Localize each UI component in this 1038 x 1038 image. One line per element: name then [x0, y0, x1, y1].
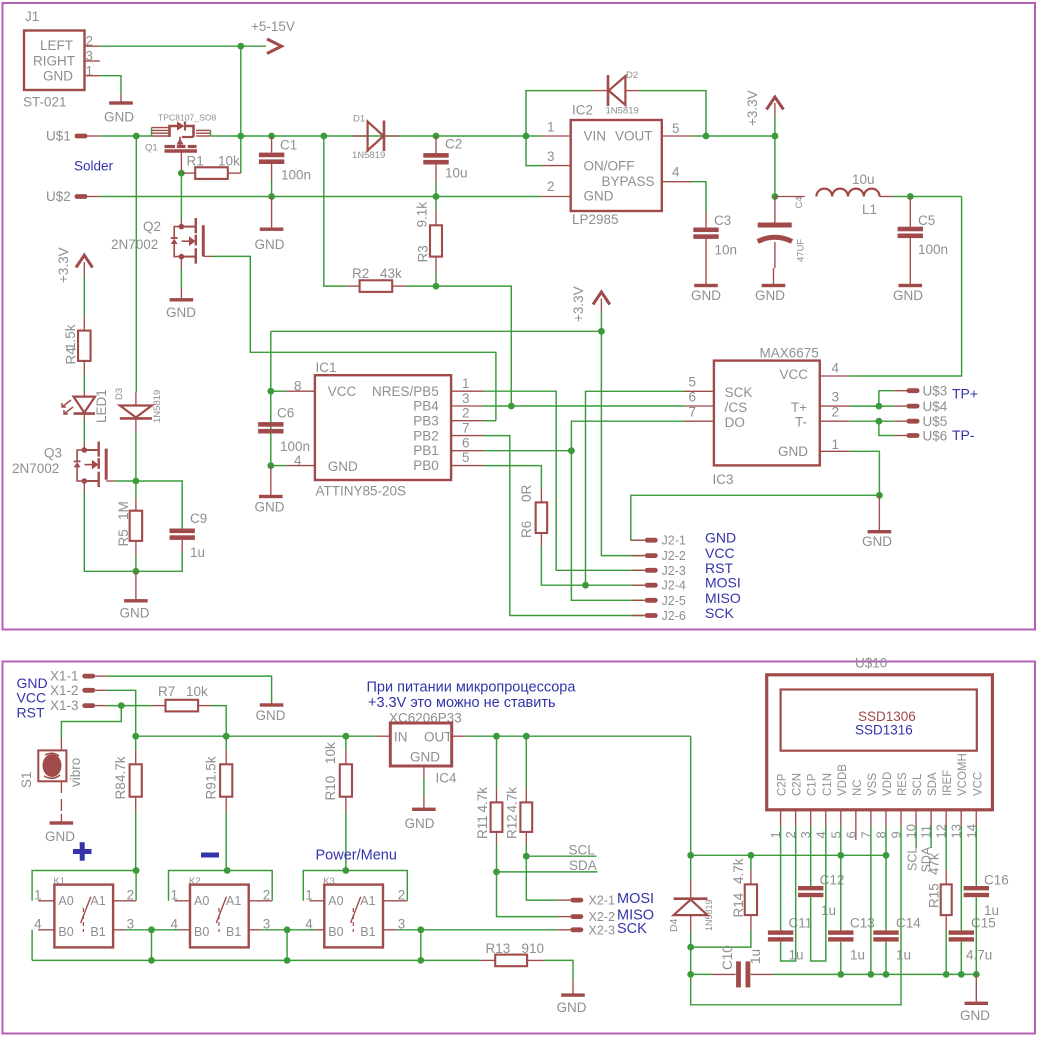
frame top sheet: [3, 3, 1036, 630]
svg-text:R10: R10: [323, 776, 338, 801]
svg-text:SCK: SCK: [725, 385, 753, 400]
svg-text:GND: GND: [862, 534, 892, 549]
svg-text:C9: C9: [190, 511, 207, 526]
switch K3: [324, 885, 383, 948]
switch K1: [54, 885, 113, 948]
svg-text:VCC: VCC: [779, 367, 808, 382]
terminal U$6: [894, 435, 907, 437]
svg-text:PB2: PB2: [413, 428, 439, 443]
svg-text:ATTINY85-20S: ATTINY85-20S: [316, 484, 407, 499]
svg-text:+3.3V: +3.3V: [745, 90, 760, 126]
svg-text:2N7002: 2N7002: [111, 237, 158, 252]
svg-text:VCOMH: VCOMH: [957, 753, 969, 796]
IC1 pin5 PB0 stub + wire to R6: [451, 465, 483, 467]
svg-text:SDA: SDA: [927, 772, 939, 796]
IC1 pin6 PB1 stub + wire junction: [451, 450, 483, 452]
left rail: main node down to D3: [135, 136, 137, 392]
wire J1 pin1 to GND: [100, 76, 121, 94]
IC4 OUT stub + 3.3V out rail: [452, 735, 466, 737]
svg-text:SCK: SCK: [617, 921, 647, 937]
ground GND (C1/U$2 rail): [271, 197, 273, 228]
svg-text:R6: R6: [519, 521, 534, 538]
svg-text:J2-2: J2-2: [662, 549, 686, 563]
J1 pin stubs: [85, 45, 100, 47]
svg-text:5: 5: [672, 121, 680, 136]
svg-text:GND: GND: [778, 444, 808, 459]
svg-text:SCK: SCK: [705, 605, 734, 621]
wire R11 to SDA/X2-2: [497, 845, 558, 917]
wire LED1 to Q3: [83, 420, 85, 443]
ground GND (Q2): [180, 288, 182, 300]
wire VDD bus y855: [691, 854, 886, 856]
svg-text:1N5819: 1N5819: [152, 390, 163, 423]
wire +3.3V down to J2-2 VCC: [601, 331, 644, 555]
ground GND (IC4): [423, 796, 425, 809]
wire OUT rail corner down to bus: [690, 736, 692, 855]
svg-text:R3: R3: [416, 245, 431, 262]
svg-text:D3: D3: [114, 388, 125, 400]
svg-text:4.7u: 4.7u: [966, 948, 992, 963]
svg-text:R9: R9: [204, 782, 219, 799]
svg-text:1: 1: [171, 888, 179, 903]
wire R6 to J2-4 MOSI: [541, 546, 644, 585]
svg-text:A0: A0: [328, 894, 343, 908]
svg-text:10k: 10k: [323, 742, 338, 764]
svg-text:GND: GND: [166, 305, 196, 320]
svg-text:D2: D2: [626, 70, 638, 81]
svg-text:GND: GND: [691, 288, 721, 303]
svg-text:X1-1: X1-1: [50, 669, 79, 684]
wire K3.3 to X2-3 SCK row: [396, 929, 557, 931]
svg-text:VDDB: VDDB: [837, 764, 849, 796]
junction R10/K3: [342, 867, 349, 874]
wire RST junction to S1 vibro: [61, 706, 121, 738]
svg-text:S1: S1: [19, 771, 34, 788]
svg-text:4: 4: [832, 361, 840, 376]
svg-text:VCC: VCC: [972, 772, 984, 796]
wire X1-2 VCC down to rail: [107, 690, 136, 736]
svg-text:C2: C2: [445, 137, 462, 152]
svg-text:C3: C3: [714, 213, 731, 228]
svg-text:GND: GND: [328, 459, 358, 474]
wire X1-1 to GND: [107, 676, 272, 702]
svg-text:VOUT: VOUT: [615, 129, 653, 144]
svg-text:U$6: U$6: [923, 428, 948, 443]
svg-text:Power/Menu: Power/Menu: [316, 848, 397, 864]
svg-text:SDA: SDA: [569, 858, 597, 873]
pad X1-2 / net VCC: [82, 688, 95, 693]
svg-text:5: 5: [689, 375, 697, 390]
pad X2-2 / net MISO: [557, 916, 570, 918]
svg-text:GND: GND: [255, 500, 285, 515]
svg-text:R1: R1: [187, 154, 204, 169]
svg-text:GND: GND: [120, 606, 150, 621]
svg-text:PB0: PB0: [413, 458, 439, 473]
svg-text:2: 2: [547, 179, 555, 194]
svg-text:J1: J1: [25, 9, 39, 24]
svg-text:MISO: MISO: [705, 590, 741, 606]
svg-text:1N5819: 1N5819: [352, 150, 385, 161]
wire to U$3: [879, 391, 894, 406]
svg-text:C14: C14: [896, 916, 921, 931]
wire R12 to SCL/X2-1: [526, 845, 557, 900]
wire D3 to node: [135, 432, 137, 481]
svg-text:K1: K1: [53, 876, 65, 887]
svg-text:X1-2: X1-2: [50, 683, 79, 698]
svg-text:X1-3: X1-3: [50, 698, 79, 713]
junction main rail R1/+5-15V: [237, 133, 244, 140]
ground GND (C3): [705, 268, 707, 286]
svg-text:47k: 47k: [927, 853, 942, 875]
Q2 source to ground: [180, 257, 182, 268]
svg-text:GND: GND: [43, 69, 73, 84]
svg-text:TP-: TP-: [952, 427, 975, 443]
svg-text:IREF: IREF: [942, 770, 954, 796]
svg-text:U$5: U$5: [923, 414, 948, 429]
svg-text:B1: B1: [226, 925, 241, 939]
svg-text:0R: 0R: [519, 484, 534, 502]
svg-text:4: 4: [672, 165, 680, 180]
svg-text:/CS: /CS: [725, 400, 748, 415]
svg-text:6: 6: [462, 435, 470, 450]
supply arrow +3.3V (top right): [767, 97, 784, 110]
ground GND (C6): [270, 466, 272, 495]
svg-text:10k: 10k: [186, 684, 208, 699]
svg-text:X2-2: X2-2: [589, 910, 615, 924]
svg-text:3: 3: [832, 390, 840, 405]
svg-text:D4: D4: [668, 918, 680, 932]
svg-text:U$4: U$4: [923, 399, 948, 414]
svg-text:MOSI: MOSI: [617, 891, 654, 907]
svg-text:RES: RES: [897, 772, 909, 796]
svg-text:K2: K2: [189, 876, 201, 887]
svg-text:B0: B0: [194, 925, 209, 939]
svg-text:DO: DO: [725, 415, 745, 430]
svg-text:SCL: SCL: [569, 843, 596, 858]
svg-text:5: 5: [462, 450, 470, 465]
svg-text:1u: 1u: [850, 948, 865, 963]
S1 bottom pin to GND: [60, 781, 62, 793]
connector J1: [24, 31, 85, 91]
U$10 pin7 VSS to GND rail: [870, 826, 872, 974]
wire K1.3-K2.4 row: [125, 929, 179, 931]
svg-text:Q1: Q1: [145, 143, 158, 154]
svg-text:4.7k: 4.7k: [113, 756, 128, 782]
node D3/Q3/R5/C9: [133, 478, 140, 485]
svg-text:J2-1: J2-1: [662, 534, 686, 548]
ground GND (R13): [572, 981, 574, 995]
svg-text:L1: L1: [862, 202, 877, 217]
Q3 gate wire to D3/R5/C9 node: [106, 480, 115, 482]
svg-text:GND: GND: [960, 1008, 990, 1023]
ground GND (J1): [120, 94, 122, 103]
Q2 gate wire to PB3 net: [203, 255, 212, 257]
IC3 pin3 T+ stub + wire: [820, 405, 850, 407]
ground GND (Q3/R5/C9): [135, 571, 137, 599]
svg-text:При питании микропроцессора: При питании микропроцессора: [367, 680, 577, 696]
junction +5-15V: [237, 43, 244, 50]
svg-text:A0: A0: [58, 894, 73, 908]
svg-text:D1: D1: [353, 114, 365, 125]
frame bottom sheet: [3, 662, 1036, 1034]
svg-text:2: 2: [462, 406, 470, 421]
IC2 pin3 stub + wire: [526, 136, 542, 166]
svg-text:C1N: C1N: [822, 773, 834, 796]
svg-text:R8: R8: [113, 782, 128, 799]
svg-text:GND: GND: [256, 708, 286, 723]
svg-text:VCC: VCC: [328, 384, 357, 399]
IC2 pin1 stub: [523, 133, 530, 140]
ground GND (IC3): [878, 495, 880, 530]
terminal U$5: [894, 420, 907, 422]
svg-text:LEFT: LEFT: [40, 38, 73, 53]
svg-text:43k: 43k: [380, 266, 402, 281]
svg-text:10u: 10u: [852, 172, 875, 187]
svg-text:4.7k: 4.7k: [731, 858, 746, 884]
svg-text:T+: T+: [791, 400, 807, 415]
svg-text:+3.3V это можно не ставить: +3.3V это можно не ставить: [368, 695, 556, 711]
svg-text:vibro: vibro: [68, 758, 83, 787]
svg-text:J2-5: J2-5: [662, 594, 686, 608]
svg-text:T-: T-: [795, 414, 807, 429]
bottom rail (switch commons): [32, 959, 480, 961]
svg-text:C10: C10: [720, 945, 735, 970]
svg-text:SCL: SCL: [912, 773, 924, 796]
svg-text:1: 1: [462, 376, 470, 391]
svg-text:IN: IN: [394, 730, 408, 745]
svg-text:TPC8107_SO8: TPC8107_SO8: [158, 113, 217, 123]
svg-text:ON/OFF: ON/OFF: [584, 159, 635, 174]
svg-text:Q3: Q3: [44, 446, 62, 461]
label SDA: [497, 871, 598, 873]
wire MOSI node up to IC3 SCK: [586, 391, 685, 585]
ground GND (S1): [60, 814, 62, 823]
wire main +VIN rail y136: [100, 135, 152, 137]
IC2 pin4 BYPASS stub: [662, 181, 692, 183]
IC3 left pin stubs: [684, 390, 714, 392]
svg-text:1.5k: 1.5k: [204, 756, 219, 782]
svg-text:VCC: VCC: [705, 545, 735, 561]
junction R9/K2: [224, 867, 231, 874]
svg-text:2N7002: 2N7002: [12, 461, 59, 476]
K2 top staple wire: [169, 871, 273, 901]
svg-text:Q2: Q2: [143, 219, 161, 234]
Q1 gate stub to R1 node: [180, 151, 182, 173]
svg-text:J2-6: J2-6: [662, 609, 686, 623]
wire PB1 to IC3 DO: [571, 421, 684, 451]
pad J2-3 / net RST: [632, 569, 645, 571]
svg-text:R4: R4: [63, 347, 78, 365]
IC3 pin1 GND stub + wire: [820, 450, 850, 452]
svg-text:OUT: OUT: [424, 730, 453, 745]
K3 top staple wire: [303, 871, 407, 901]
svg-text:A1: A1: [360, 894, 375, 908]
svg-text:RIGHT: RIGHT: [33, 53, 75, 68]
svg-text:PB1: PB1: [413, 443, 439, 458]
wire GND net to J2-1: [631, 495, 880, 540]
svg-text:1: 1: [34, 888, 42, 903]
svg-text:MOSI: MOSI: [705, 575, 741, 591]
svg-text:C16: C16: [984, 873, 1009, 888]
K1 pin stubs: [38, 900, 54, 902]
svg-text:2: 2: [127, 888, 135, 903]
svg-text:BYPASS: BYPASS: [602, 174, 655, 189]
svg-text:47UF: 47UF: [796, 239, 807, 262]
svg-text:VDD: VDD: [882, 772, 894, 796]
svg-text:10k: 10k: [218, 154, 240, 169]
svg-text:J2-4: J2-4: [662, 579, 686, 593]
U$10 pin5 VDDB to bus: [840, 826, 842, 855]
svg-text:C6: C6: [277, 406, 294, 421]
IC1 pin2 PB3 stub: [451, 420, 483, 422]
pad J2-6 / net SCK: [632, 615, 645, 617]
svg-text:C4: C4: [794, 196, 805, 208]
svg-text:C11: C11: [789, 916, 813, 931]
wire K1 pin4 to bottom rail: [31, 930, 33, 961]
svg-text:GND: GND: [893, 288, 923, 303]
supply arrow +3.3V (left): [76, 255, 93, 267]
wire K2.3-K3.4 row: [261, 929, 314, 931]
svg-text:U$1: U$1: [46, 129, 71, 144]
svg-text:3: 3: [547, 149, 555, 164]
U$10 pin8 VDD to bus: [885, 826, 887, 855]
svg-text:U$3: U$3: [923, 384, 948, 399]
svg-text:MAX6675: MAX6675: [760, 346, 819, 361]
svg-text:+3.3V: +3.3V: [571, 286, 586, 322]
svg-text:PB3: PB3: [413, 414, 439, 429]
supply arrow +5-15V: [267, 39, 282, 54]
svg-text:R2: R2: [352, 266, 369, 281]
svg-text:100n: 100n: [918, 242, 948, 257]
IC4 GND pin: [423, 766, 425, 778]
K2 pin stubs: [175, 900, 191, 902]
junction main rail C1: [268, 133, 275, 140]
junction main rail R2 branch: [320, 133, 327, 140]
wire X1-3 RST to R7: [107, 705, 152, 707]
svg-text:1.5k: 1.5k: [63, 324, 78, 350]
pad J2-2 / net VCC: [632, 555, 645, 557]
svg-text:B1: B1: [90, 925, 105, 939]
svg-text:3: 3: [462, 391, 470, 406]
svg-text:A1: A1: [90, 894, 105, 908]
svg-text:GND: GND: [557, 1000, 587, 1015]
IC1 pin1 NRES stub + wire to J2-3: [451, 390, 483, 392]
svg-text:C5: C5: [918, 213, 935, 228]
svg-text:1N5819: 1N5819: [606, 106, 639, 117]
pad X1-3 / net RST: [82, 703, 95, 708]
junction main rail x136: [133, 133, 140, 140]
svg-text:7: 7: [689, 405, 697, 420]
svg-text:GND: GND: [705, 530, 736, 546]
svg-text:IC1: IC1: [316, 360, 337, 375]
svg-text:J2-3: J2-3: [662, 564, 686, 578]
IC3 pin2 T- stub + wire: [820, 420, 850, 422]
wire 3.3V to IC3 VCC: [850, 197, 962, 377]
svg-text:+5-15V: +5-15V: [251, 19, 295, 34]
svg-text:X2-3: X2-3: [589, 923, 615, 937]
svg-text:A0: A0: [194, 894, 209, 908]
wire to U$6: [879, 421, 894, 435]
svg-text:R12: R12: [505, 814, 520, 839]
supply arrow +3.3V (middle): [593, 292, 610, 305]
GND rail right: [691, 973, 712, 975]
svg-text:K3: K3: [323, 876, 335, 887]
pad J2-1 / net GND: [632, 539, 645, 541]
svg-text:RST: RST: [17, 705, 45, 721]
svg-text:GND: GND: [410, 750, 440, 765]
wire PB1 to J2-5 MISO: [571, 451, 644, 601]
svg-text:RST: RST: [705, 560, 733, 576]
svg-text:VSS: VSS: [867, 773, 879, 796]
pad X1-1 / net GND: [82, 674, 95, 679]
svg-text:10u: 10u: [445, 166, 468, 181]
label SCL: [526, 855, 596, 857]
svg-text:GND: GND: [755, 288, 785, 303]
svg-text:1: 1: [547, 120, 555, 135]
junction R8/K1: [133, 867, 140, 874]
U$10 pin10 SCL label: [915, 826, 917, 848]
pad J2-4 / net MOSI: [632, 584, 645, 586]
svg-text:VIN: VIN: [584, 129, 607, 144]
svg-text:X2-1: X2-1: [589, 894, 615, 908]
svg-text:10n: 10n: [715, 243, 738, 258]
svg-text:1u: 1u: [821, 903, 836, 918]
IC2 pin5 VOUT stub: [662, 135, 692, 137]
label - (minus button): [201, 853, 219, 858]
svg-text:1: 1: [305, 888, 313, 903]
svg-text:R11: R11: [475, 815, 490, 839]
svg-text:4: 4: [34, 917, 42, 932]
IC1 pin3 PB4 stub + wire to IC3 /CS: [451, 405, 483, 407]
svg-text:SCL: SCL: [906, 847, 920, 871]
switch K2: [190, 885, 249, 948]
terminal U$4: [894, 405, 907, 407]
svg-text:GND: GND: [405, 816, 435, 831]
wire +5-15V vertical to R1: [240, 46, 242, 173]
svg-text:GND: GND: [104, 110, 134, 125]
svg-text:1u: 1u: [190, 545, 205, 560]
wire R2/R3 node to PB4: [436, 286, 511, 406]
+3.3V rail horizontal: [271, 330, 602, 332]
svg-text:IC3: IC3: [713, 472, 734, 487]
wire D4/C10 down to RES net: [691, 826, 901, 1005]
svg-text:SSD1316: SSD1316: [855, 723, 913, 738]
IC2 pin2 GND stub: [541, 196, 571, 198]
svg-text:IC2: IC2: [572, 103, 593, 118]
svg-text:C1P: C1P: [807, 773, 819, 796]
ground GND (display rail): [975, 974, 977, 1001]
svg-text:A1: A1: [226, 894, 241, 908]
wire J1 pin2 to +5-15V rail: [100, 45, 266, 47]
wire U$2 ground rail y196: [100, 196, 541, 198]
ground GND (C4): [773, 268, 775, 286]
svg-text:4.7k: 4.7k: [475, 787, 490, 813]
+3.3V rail to IC1/C6: [270, 331, 272, 465]
IC4 IN stub: [375, 735, 390, 737]
K1 top staple wire: [32, 871, 136, 901]
VCC rail bottom sheet: [136, 735, 376, 737]
svg-text:B1: B1: [360, 925, 375, 939]
svg-text:Solder: Solder: [74, 159, 114, 174]
IC1 pin8 VCC stub: [286, 390, 315, 392]
svg-text:GND: GND: [255, 237, 285, 252]
svg-text:B0: B0: [328, 925, 343, 939]
svg-text:2: 2: [398, 888, 406, 903]
svg-text:NRES/PB5: NRES/PB5: [372, 384, 439, 399]
svg-text:C2N: C2N: [792, 773, 804, 796]
svg-text:LED1: LED1: [94, 389, 109, 423]
svg-text:U$10: U$10: [855, 656, 887, 671]
